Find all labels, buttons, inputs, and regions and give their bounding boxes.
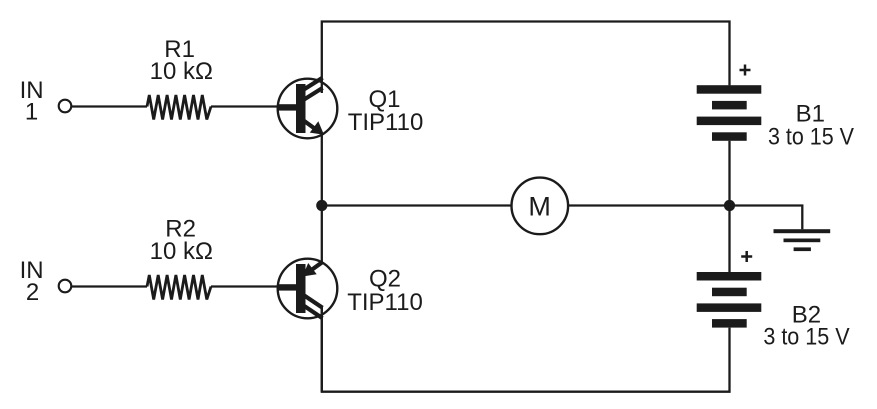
node A junction dot — [316, 200, 327, 211]
transistor Q1 emitter stroke — [302, 120, 314, 129]
transistor Q2 base bar — [296, 264, 306, 313]
battery B2 plus sign — [741, 251, 752, 262]
wire: R1 to Q1 base — [211, 105, 281, 107]
transistor Q1 base lead — [277, 104, 297, 110]
input terminal IN2 — [59, 280, 72, 293]
transistor Q2 collector double stroke — [304, 295, 323, 308]
transistor Q2 circle — [278, 259, 338, 319]
svg-text:10 kΩ: 10 kΩ — [150, 238, 213, 265]
wire: node A to motor — [322, 204, 512, 206]
transistor Q1 emitter arrow — [310, 121, 324, 135]
wire: top rail from Q1 collector to B1 positive — [322, 22, 730, 94]
transistor Q2 base lead — [277, 284, 297, 290]
motor M circle — [512, 178, 569, 235]
wire: Q2 collector to bottom rail — [321, 307, 323, 392]
wire: IN1 terminal to R1 — [72, 105, 147, 107]
transistor Q2 emitter stroke — [311, 262, 323, 270]
svg-text:1: 1 — [25, 98, 38, 125]
battery B1 plus sign — [740, 65, 751, 76]
wire: node A to Q2 emitter — [321, 206, 323, 263]
svg-text:3 to 15 V: 3 to 15 V — [768, 123, 854, 150]
wire: motor to node B — [568, 204, 729, 206]
transistor Q1 collector double stroke — [304, 78, 323, 90]
svg-text:M: M — [528, 192, 551, 222]
transistor Q2 emitter arrow — [303, 263, 317, 277]
wire: node B to ground — [730, 206, 803, 230]
svg-text:2: 2 — [26, 279, 39, 306]
transistor Q1 base bar — [296, 84, 306, 133]
node B junction dot — [724, 200, 735, 211]
ground — [774, 229, 831, 251]
wire: IN2 terminal to R2 — [72, 285, 147, 287]
svg-text:TIP110: TIP110 — [348, 109, 424, 136]
svg-text:10 kΩ: 10 kΩ — [150, 58, 213, 85]
battery B2 plates — [697, 272, 762, 328]
battery B1 plates — [697, 85, 762, 141]
resistor R2 — [147, 275, 211, 300]
wire: bottom rail from B2 negative to Q2 collector — [322, 307, 730, 392]
wire: node B to B2 positive — [728, 206, 730, 273]
resistor R1 — [147, 95, 211, 120]
wire: Q1 emitter to node A — [321, 135, 323, 206]
input terminal IN1 — [59, 100, 72, 113]
svg-text:TIP110: TIP110 — [347, 289, 423, 316]
svg-text:3 to 15 V: 3 to 15 V — [763, 324, 849, 351]
wire: R2 to Q2 base — [211, 285, 281, 287]
transistor Q1 circle — [278, 79, 338, 139]
wire: B1 to node B — [728, 141, 730, 206]
